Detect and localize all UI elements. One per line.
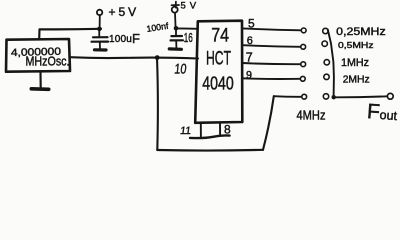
- svg-text:6: 6: [247, 35, 253, 47]
- svg-text:0,25MHz: 0,25MHz: [336, 26, 386, 38]
- svg-text:10: 10: [174, 60, 188, 76]
- svg-text:HCT: HCT: [206, 48, 231, 69]
- svg-text:5V: 5V: [181, 1, 201, 12]
- svg-text:4MHz: 4MHz: [297, 108, 326, 123]
- svg-text:16: 16: [184, 30, 193, 45]
- svg-text:9: 9: [246, 69, 252, 81]
- svg-text:100uF: 100uF: [109, 31, 140, 46]
- svg-text:11: 11: [179, 125, 192, 137]
- svg-text:+5V: +5V: [109, 5, 140, 19]
- svg-text:1MHz: 1MHz: [341, 57, 369, 69]
- svg-text:MHzOsc.: MHzOsc.: [26, 54, 70, 68]
- svg-text:7: 7: [246, 50, 253, 64]
- svg-text:8: 8: [224, 122, 231, 136]
- svg-text:5: 5: [248, 17, 255, 31]
- svg-text:4040: 4040: [202, 74, 234, 94]
- svg-text:74: 74: [211, 26, 229, 47]
- svg-text:0,5MHz: 0,5MHz: [338, 40, 374, 50]
- svg-text:2MHz: 2MHz: [343, 74, 370, 85]
